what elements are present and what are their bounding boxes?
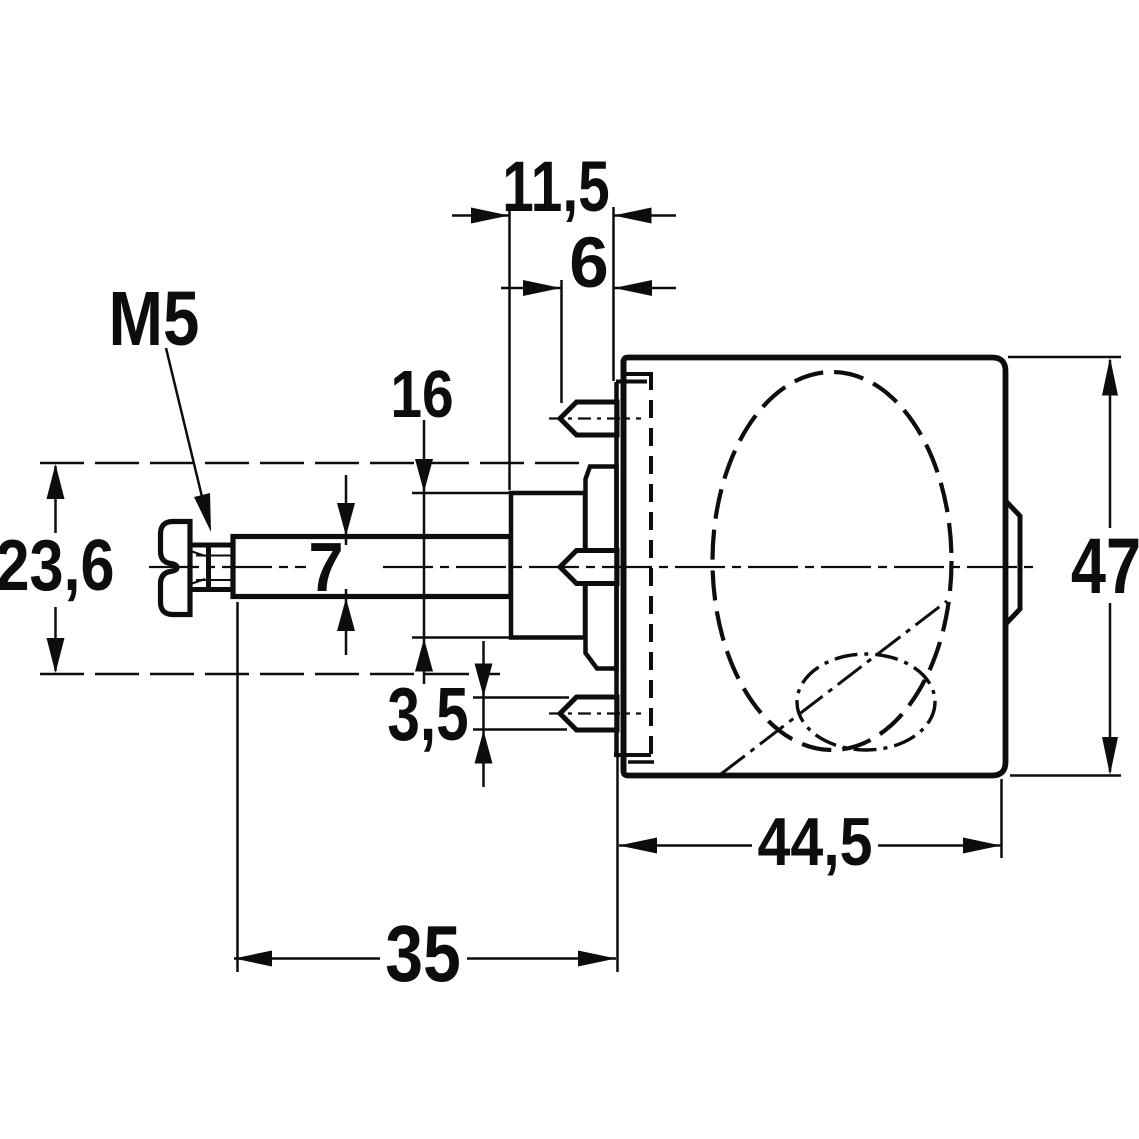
svg-text:6: 6	[569, 224, 609, 303]
svg-text:7: 7	[308, 529, 343, 607]
svg-text:23,6: 23,6	[0, 526, 115, 606]
svg-text:16: 16	[390, 358, 453, 432]
svg-text:35: 35	[385, 909, 461, 998]
svg-text:44,5: 44,5	[757, 803, 872, 880]
svg-text:47: 47	[1071, 522, 1139, 610]
svg-text:11,5: 11,5	[502, 147, 609, 227]
svg-text:M5: M5	[109, 276, 200, 362]
svg-text:3,5: 3,5	[387, 673, 468, 757]
